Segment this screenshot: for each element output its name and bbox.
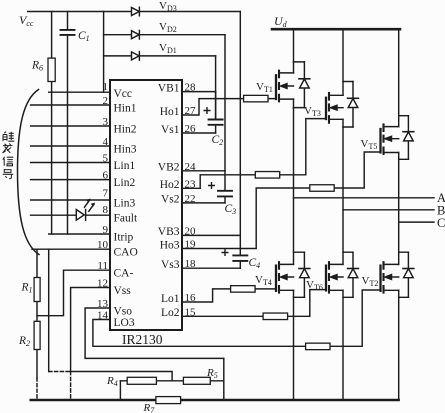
svg-text:1: 1 [103,81,109,93]
wire output line B [343,209,434,211]
wire pin 16 Lo1 to VT4 gate [182,289,276,302]
wire output line C [399,221,434,223]
wire pin 12 Vss drop [71,288,110,372]
capacitor C3 [218,191,232,203]
wire phase A vertical [293,108,295,265]
wire pin 27 Ho1 to VT1 gate [182,99,276,115]
wire output line A [294,197,435,199]
svg-text:Itrip: Itrip [114,232,134,244]
svg-text:5: 5 [103,152,109,164]
transistor VT3 [326,29,358,127]
svg-text:VT3: VT3 [304,105,321,118]
svg-text:VT4: VT4 [255,274,272,287]
wire pin 4 Hin3 input [31,145,110,147]
resistor R4 [127,377,156,384]
svg-text:Fault: Fault [114,213,138,225]
resistor R7 in ground rail [156,397,181,404]
svg-text:Vcc: Vcc [114,88,133,100]
wire pin 20 VB3 [182,234,240,236]
svg-text:Ho1: Ho1 [160,106,180,118]
resistor R6 [48,12,55,235]
svg-text:Ho3: Ho3 [160,239,180,251]
wire pin 10 CAO [32,248,110,250]
svg-text:VT5: VT5 [361,138,378,151]
svg-text:C2: C2 [212,134,224,147]
svg-text:Vss: Vss [114,285,132,297]
capacitor C1 [61,12,75,235]
wire pin 26 Vs1 [182,132,216,134]
svg-text:VB1: VB1 [158,82,180,94]
svg-text:R2: R2 [18,335,30,348]
svg-text:Lin2: Lin2 [114,177,136,189]
resistor gate VT3 [255,172,279,179]
wire pin 22 Vs2 [182,202,225,204]
svg-text:Ud: Ud [274,14,288,29]
svg-text:23: 23 [185,178,197,190]
svg-text:Vs2: Vs2 [161,194,180,206]
wire pin 2 Hin1 input [31,104,110,106]
resistor gate VT6 [263,313,288,320]
svg-text:12: 12 [97,278,108,290]
svg-text:Vs1: Vs1 [161,124,180,136]
svg-text:Hin2: Hin2 [114,124,137,136]
Ud positive rail [272,28,400,31]
wire VD2 line [104,34,225,36]
svg-text:13: 13 [97,298,109,310]
wire pin 15 Lo2 to VT6 gate [182,290,326,317]
svg-text:Lin3: Lin3 [114,198,136,210]
svg-text:C3: C3 [225,203,237,216]
wire pin 6 Lin2 input [31,179,110,181]
wire pin 1 Vcc input [49,91,110,93]
svg-text:3: 3 [103,116,109,128]
plus sign C3 [208,182,215,189]
svg-text:R5: R5 [206,367,218,380]
resistor gate VT2 [306,343,330,350]
svg-text:4: 4 [103,136,109,148]
IC pin labels left column [114,88,138,329]
svg-text:R6: R6 [31,60,43,73]
svg-text:R7: R7 [143,402,156,413]
IC pin labels right column [158,82,180,319]
brace for trigger signals [18,90,40,255]
svg-text:VB3: VB3 [158,226,180,238]
wire drop R4 left to rail [119,381,121,400]
svg-text:VD1: VD1 [159,42,177,55]
svg-text:7: 7 [103,188,109,200]
resistor gate VT5 [310,185,334,192]
wire VD1 line [104,55,216,57]
svg-text:C4: C4 [249,257,261,270]
svg-text:Ho2: Ho2 [160,179,180,191]
svg-text:CA-: CA- [114,268,134,280]
wire pin 11 CA- with drop to R1/R2 junction [37,270,110,316]
wire pin 8 Fault with LED [31,214,110,216]
plus sign C4 [222,249,229,256]
resistor R1 chain from CAO [34,249,40,399]
svg-text:IR2130: IR2130 [122,332,163,347]
svg-text:VT2: VT2 [362,275,379,288]
svg-text:Vso: Vso [114,306,133,318]
wire pin 13 Vso drop and run [85,308,224,358]
capacitor C4 [233,255,247,268]
wire R4 R5 row [120,380,223,382]
wire CAO loop down [48,249,50,371]
transistor VT5 [381,29,414,159]
svg-text:14: 14 [97,310,109,322]
pin numbers left [97,81,109,322]
wire pin 24 VB2 [182,170,225,172]
transistor VT1 [276,29,310,107]
svg-text:Lin1: Lin1 [114,160,136,172]
trigger signal Chinese text 触发信号 [3,132,15,179]
svg-text:Vs3: Vs3 [161,259,180,271]
svg-text:8: 8 [103,204,109,216]
svg-text:Hin3: Hin3 [114,143,137,155]
svg-text:2: 2 [103,95,109,107]
wire drop Vso node to rail [223,358,225,400]
svg-text:18: 18 [185,258,197,270]
svg-text:R1: R1 [21,282,33,295]
svg-text:15: 15 [185,306,197,318]
svg-text:24: 24 [185,161,197,173]
svg-text:Lo2: Lo2 [161,307,180,319]
svg-text:27: 27 [185,105,197,117]
svg-text:19: 19 [185,239,197,251]
svg-text:9: 9 [103,224,109,236]
wire pin 19 Ho3 to VT5 gate [182,152,381,249]
svg-text:R4: R4 [106,375,118,388]
wire VD2 cathode drop to VB2 and C3 [224,35,226,191]
capacitor C2 [209,92,223,133]
diode VD1 [132,52,140,61]
transistor VT4 [276,252,310,400]
svg-text:CAO: CAO [114,247,138,259]
svg-text:6: 6 [103,169,109,181]
svg-text:28: 28 [185,82,197,94]
ground rail bottom [31,399,399,401]
svg-text:11: 11 [97,260,108,272]
wire phase C vertical [398,159,400,264]
wire pin 23 Ho2 to VT3 gate [182,119,326,189]
wire pin 28 VB1 [182,91,216,93]
diode VD2 [132,30,140,39]
LED indicator on Fault line [76,199,95,221]
resistor gate VT4 [231,286,256,293]
svg-text:22: 22 [185,193,196,205]
svg-text:10: 10 [97,239,109,251]
svg-text:26: 26 [185,123,197,135]
svg-text:Lo1: Lo1 [161,293,180,305]
svg-text:Vcc: Vcc [19,13,34,28]
svg-text:VB2: VB2 [158,162,180,174]
transistor VT6 [326,252,358,400]
resistor R5 [183,377,210,384]
wire phase B vertical [342,127,344,264]
wire pin 18 Vs3 [182,267,240,269]
wire pin 3 Hin2 input [31,125,110,127]
Vcc supply rail [28,11,241,13]
wire pin 5 Lin1 input [31,162,110,164]
wire Vcc drop to pin 1 [103,12,105,93]
pin numbers right [185,82,197,319]
svg-text:VD2: VD2 [159,21,177,34]
svg-text:C1: C1 [78,30,90,43]
plus sign C2 [204,107,211,114]
svg-text:VT1: VT1 [256,81,273,94]
wire pin 7 Lin3 input [31,199,110,201]
svg-text:VD3: VD3 [159,0,177,13]
wire VD3 cathode drop to VB3 and C4 [239,12,241,255]
resistor gate VT1 [244,95,268,102]
wire pin 9 Itrip [49,233,110,235]
svg-text:VT6: VT6 [306,279,323,292]
svg-text:16: 16 [185,292,197,304]
IC U1 IR2130 body [110,80,182,330]
wire pin 14 LO3 drop and run to VT2 gate [93,290,381,346]
transistor VT2 [381,252,414,400]
wire VD1 cathode drop to VB1 and C2 [215,56,217,119]
svg-text:LO3: LO3 [114,317,135,329]
svg-text:C: C [437,216,445,230]
diode VD3 [132,7,140,16]
svg-text:Hin1: Hin1 [114,103,137,115]
svg-text:20: 20 [185,225,197,237]
